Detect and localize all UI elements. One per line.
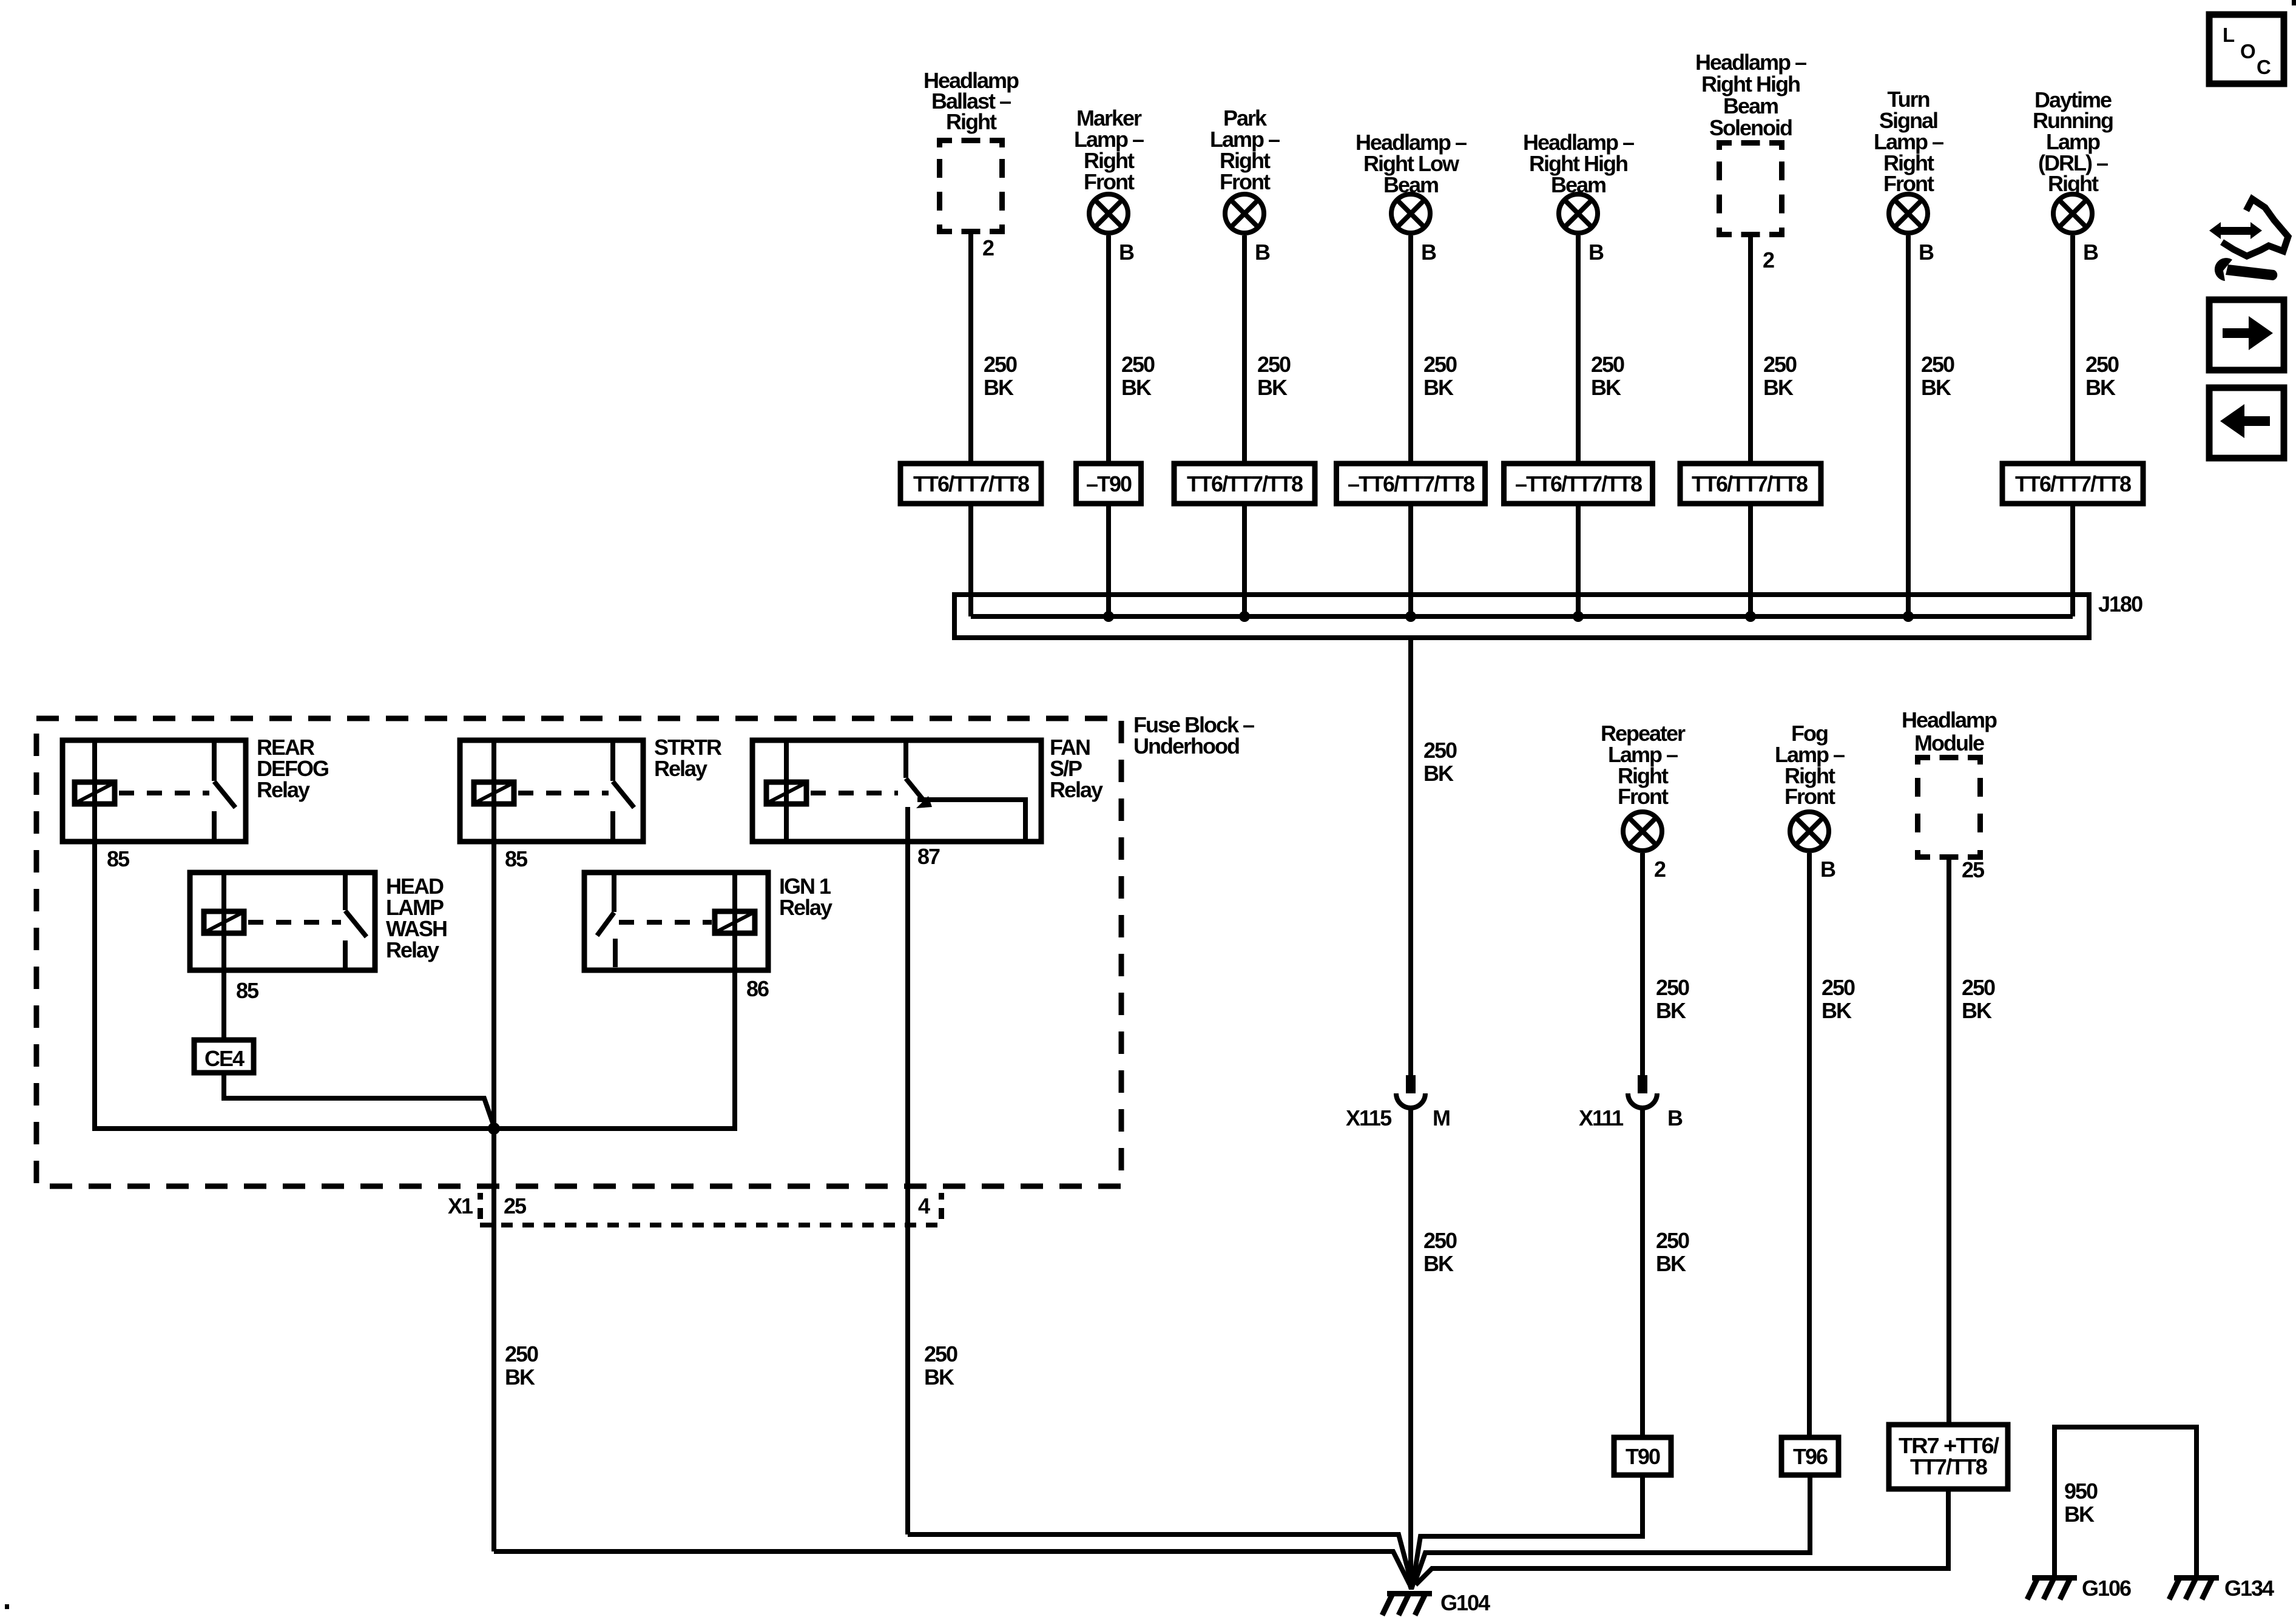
label 250 BK (repeater upper) (1656, 975, 1689, 1023)
label 250 BK (X1-4 wire) (924, 1342, 957, 1389)
connector X1 dashed line (480, 1223, 944, 1227)
wire X111 to T90 (1640, 1108, 1645, 1437)
relay REAR DEFOG: box (62, 740, 246, 842)
svg-text:Relay: Relay (1050, 777, 1103, 802)
splice box -TT6/TT7/TT8 (low) (1337, 464, 1485, 504)
splice box T96 (1781, 1437, 1838, 1475)
junction dot on J180 (low) (1405, 611, 1416, 622)
wire low to bus J180 (1408, 504, 1413, 616)
wire marker to bus J180 (1106, 504, 1111, 616)
relay IGN 1: box (584, 873, 768, 970)
svg-text:T90: T90 (1626, 1444, 1660, 1469)
component Headlamp Module (dashed box) (1902, 707, 1997, 860)
svg-text:250: 250 (1921, 352, 1954, 377)
svg-text:BK: BK (1962, 998, 1992, 1023)
connector X1 left bracket dashes (478, 1193, 483, 1200)
svg-text:250: 250 (1591, 352, 1624, 377)
svg-text:250: 250 (984, 352, 1017, 377)
splice box -T90 (marker) (1076, 464, 1141, 504)
label 250 BK (ballast) (984, 352, 1017, 400)
svg-text:BK: BK (924, 1365, 954, 1389)
svg-text:BK: BK (1763, 375, 1794, 400)
connector X115 (1346, 1075, 1450, 1130)
svg-text:L: L (2223, 24, 2235, 46)
svg-text:B: B (1255, 240, 1270, 265)
wire turn lamp pin B down (1908, 235, 1934, 616)
ground G104 arrow tip (1403, 1573, 1419, 1590)
wire park to bus J180 (1242, 504, 1247, 616)
fuse CE4 box (194, 1040, 254, 1073)
wire solenoid pin 2 down (1751, 237, 1774, 464)
svg-text:T96: T96 (1793, 1444, 1828, 1469)
svg-text:CE4: CE4 (204, 1046, 245, 1071)
component Headlamp - Right High Beam Solenoid (dashed box) (1695, 50, 1806, 237)
wire park lamp pin B down (1244, 235, 1270, 464)
svg-text:Headlamp –: Headlamp – (1695, 50, 1806, 75)
ground G134 symbol (2169, 1575, 2219, 1599)
svg-text:X115: X115 (1346, 1106, 1392, 1130)
svg-text:BK: BK (1423, 375, 1454, 400)
svg-text:B: B (1820, 857, 1835, 882)
svg-text:250: 250 (1121, 352, 1155, 377)
wire high lamp pin B down (1578, 235, 1604, 464)
wire REAR DEFOG pin 85 down (92, 842, 97, 1126)
svg-text:G134: G134 (2224, 1576, 2274, 1601)
label 250 BK (marker) (1121, 352, 1155, 400)
label 250 BK (low) (1423, 352, 1457, 400)
svg-text:G104: G104 (1440, 1590, 1490, 1615)
wire T90 to G104 (1413, 1475, 1643, 1582)
svg-text:TT6/TT7/TT8: TT6/TT7/TT8 (1692, 471, 1808, 496)
svg-text:250: 250 (1763, 352, 1797, 377)
svg-text:BK: BK (505, 1365, 535, 1389)
svg-text:BK: BK (1257, 375, 1288, 400)
svg-text:250: 250 (505, 1342, 538, 1366)
junction dot on J180 (high) (1573, 611, 1584, 622)
label 250 BK (module) (1962, 975, 1995, 1023)
splice box TR7 +TT6/TT7/TT8 (1889, 1425, 2008, 1489)
svg-text:250: 250 (1822, 975, 1855, 1000)
svg-text:250: 250 (1423, 738, 1457, 763)
label 950 BK (2064, 1479, 2098, 1527)
label STRTR Relay (654, 735, 722, 781)
svg-text:O: O (2240, 40, 2256, 62)
relay HEAD LAMP WASH: box (190, 873, 375, 970)
svg-text:–T90: –T90 (1086, 471, 1132, 496)
component Headlamp Ballast - Right (dashed box) (923, 68, 1019, 234)
label Fuse Block - Underhood (1133, 712, 1254, 758)
wire ballast to bus J180 (968, 504, 973, 616)
svg-text:2: 2 (1763, 248, 1774, 272)
svg-text:X111: X111 (1579, 1106, 1624, 1130)
svg-text:Underhood: Underhood (1133, 734, 1239, 758)
junction dot on J180 (marker) (1103, 611, 1114, 622)
svg-text:Right: Right (946, 109, 997, 134)
splice box -TT6/TT7/TT8 (high) (1504, 464, 1653, 504)
svg-text:250: 250 (1423, 352, 1457, 377)
icon back arrow box (2209, 388, 2284, 458)
relay STRTR coil-switch dashed link (518, 791, 609, 795)
wire drl to bus J180 (2070, 504, 2075, 616)
wire bus J180 internal (971, 614, 2073, 619)
svg-text:250: 250 (1656, 975, 1689, 1000)
label IGN 1 Relay (779, 874, 832, 920)
wire STRTR pin 85 down to junction (491, 842, 496, 1129)
svg-text:Beam: Beam (1723, 93, 1778, 118)
svg-text:B: B (1667, 1106, 1683, 1130)
relay STRTR switch contact (613, 740, 634, 842)
label HEAD LAMP WASH Relay (386, 874, 447, 962)
svg-text:–TT6/TT7/TT8: –TT6/TT7/TT8 (1515, 471, 1642, 496)
svg-text:Front: Front (1618, 784, 1669, 809)
svg-text:250: 250 (1962, 975, 1995, 1000)
svg-text:250: 250 (2085, 352, 2119, 377)
lamp Headlamp - Right High Beam (1523, 130, 1634, 233)
svg-text:BK: BK (984, 375, 1014, 400)
connector X1 right bracket dashes (939, 1193, 944, 1200)
svg-text:86: 86 (746, 976, 769, 1001)
wire T96 to G104 (1414, 1475, 1810, 1584)
relay REAR DEFOG switch contact (214, 740, 235, 842)
label 250 BK (turn) (1921, 352, 1954, 400)
relay HEAD LAMP WASH coil-switch dashed link (248, 920, 341, 925)
svg-text:B: B (1919, 240, 1934, 265)
label 250 BK (repeater lower) (1656, 1228, 1689, 1276)
svg-text:Front: Front (1220, 169, 1271, 194)
svg-text:B: B (1421, 240, 1436, 265)
svg-text:BK: BK (2085, 375, 2116, 400)
label 250 BK (park) (1257, 352, 1291, 400)
wire 950 BK ground strap G106-G134 (2055, 1427, 2196, 1578)
svg-text:2: 2 (1654, 857, 1666, 882)
ground G106 symbol (2027, 1575, 2077, 1599)
label 250 BK (low beam upper) (1423, 738, 1457, 786)
label 250 BK (high) (1591, 352, 1624, 400)
relay FAN S/P: box (752, 740, 1041, 842)
svg-text:–TT6/TT7/TT8: –TT6/TT7/TT8 (1348, 471, 1474, 496)
relay HEAD LAMP WASH switch contact (345, 873, 366, 970)
label 250 BK (low beam lower) (1423, 1228, 1457, 1276)
svg-text:Front: Front (1784, 784, 1835, 809)
wire low lamp pin B down (1411, 235, 1436, 464)
svg-text:C: C (2257, 56, 2271, 78)
lamp Turn Signal Lamp - Right Front (1874, 87, 1943, 233)
svg-text:85: 85 (107, 846, 130, 871)
label 250 BK (solenoid) (1763, 352, 1797, 400)
icon LOC box (2209, 15, 2284, 84)
svg-text:J180: J180 (2098, 592, 2142, 616)
label 250 BK (fog) (1822, 975, 1855, 1023)
wire collector down through X1-25 (491, 1129, 496, 1551)
svg-text:BK: BK (1656, 998, 1686, 1023)
wire FAN S/P pin 87 down (905, 807, 910, 1534)
svg-text:B: B (1589, 240, 1604, 265)
relay STRTR coil and pin line (474, 740, 514, 842)
svg-text:250: 250 (1257, 352, 1291, 377)
svg-text:250: 250 (924, 1342, 957, 1366)
svg-text:Right High: Right High (1701, 72, 1800, 96)
svg-text:B: B (2083, 240, 2098, 265)
svg-text:Relay: Relay (779, 895, 832, 920)
svg-text:250: 250 (1656, 1228, 1689, 1253)
splice box TT6/TT7/TT8 (drl) (2002, 464, 2143, 504)
wire CE4 to junction (224, 1073, 494, 1126)
wire marker lamp pin B down (1109, 235, 1134, 464)
lamp Daytime Running Lamp (DRL) - Right (2033, 87, 2113, 233)
junction dot on J180 (park) (1239, 611, 1250, 622)
page mark top right (2292, 0, 2296, 5)
junction dot (fuse block ground collector) (488, 1122, 500, 1135)
svg-text:BK: BK (1423, 1251, 1454, 1276)
page mark bottom left (5, 1604, 9, 1609)
svg-text:Front: Front (1084, 169, 1135, 194)
wire repeater pin 2 to X111 (1643, 853, 1666, 1075)
component Fuse Block - Underhood (dashed outline) (36, 718, 1121, 1186)
relay FAN S/P coil-switch dashed link (811, 791, 898, 795)
svg-text:4: 4 (918, 1193, 930, 1218)
svg-text:BK: BK (2064, 1502, 2095, 1527)
junction dot on J180 (sol) (1745, 611, 1756, 622)
lamp Headlamp - Right Low Beam (1356, 130, 1467, 233)
svg-text:BK: BK (1822, 998, 1852, 1023)
wire X1-4 (FAN S/P 87) to G104 (908, 1534, 1411, 1582)
svg-text:TT6/TT7/TT8: TT6/TT7/TT8 (2015, 471, 2131, 496)
svg-text:G106: G106 (2082, 1576, 2131, 1601)
svg-text:Relay: Relay (654, 756, 707, 781)
wire TR7 to G104 (1416, 1489, 1948, 1585)
lamp Repeater Lamp - Right Front (1601, 721, 1686, 851)
svg-text:BK: BK (1121, 375, 1152, 400)
wire low-beam ground lead (bus to X115) (1408, 638, 1413, 1075)
svg-text:2: 2 (982, 235, 994, 260)
splice box TT6/TT7/TT8 (park) (1174, 464, 1315, 504)
relay FAN S/P switch contact with output (906, 740, 1025, 839)
svg-text:BK: BK (1423, 761, 1454, 786)
svg-text:87: 87 (917, 844, 940, 869)
splice box TT6/TT7/TT8 (ballast) (900, 464, 1041, 504)
svg-text:M: M (1433, 1106, 1450, 1130)
ground G104 symbol (1382, 1591, 1432, 1615)
relay IGN 1 coil and pin line (715, 873, 755, 970)
wire high to bus J180 (1576, 504, 1581, 616)
svg-text:85: 85 (236, 978, 259, 1003)
wire solenoid to bus J180 (1748, 504, 1753, 616)
svg-text:TT7/TT8: TT7/TT8 (1910, 1454, 1987, 1479)
relay STRTR: box (460, 740, 643, 842)
wire X1-25 to G104 (494, 1551, 1410, 1584)
splice bus J180 outline (954, 595, 2089, 638)
svg-text:Relay: Relay (386, 937, 439, 962)
splice box TT6/TT7/TT8 (solenoid) (1680, 464, 1821, 504)
wire module pin 25 down (1949, 857, 1985, 1425)
relay IGN 1 switch contact (left) (597, 873, 615, 967)
label REAR DEFOG Relay (257, 735, 328, 802)
svg-text:BK: BK (1921, 375, 1951, 400)
splice box T90 (1614, 1437, 1671, 1475)
wire ballast pin 2 to splice box (971, 234, 994, 464)
svg-text:Headlamp: Headlamp (1902, 707, 1997, 732)
lamp Park Lamp - Right Front (1210, 106, 1280, 233)
label 250 BK (X1-25 wire) (505, 1342, 538, 1389)
lamp Marker Lamp - Right Front (1074, 106, 1144, 233)
svg-text:Solenoid: Solenoid (1709, 115, 1792, 140)
svg-text:250: 250 (1423, 1228, 1457, 1253)
relay FAN S/P coil and pin line (766, 740, 806, 842)
relay REAR DEFOG coil and pin line (75, 740, 115, 842)
relay IGN 1 coil-switch dashed link (619, 920, 712, 925)
svg-text:B: B (1119, 240, 1134, 265)
connector X111 (1579, 1075, 1683, 1130)
svg-text:25: 25 (504, 1193, 527, 1218)
svg-text:950: 950 (2064, 1479, 2098, 1504)
svg-text:BK: BK (1591, 375, 1621, 400)
wire X115 to G104 (1408, 1108, 1413, 1586)
svg-text:BK: BK (1656, 1251, 1686, 1276)
svg-text:TT6/TT7/TT8: TT6/TT7/TT8 (1187, 471, 1303, 496)
relay HEAD LAMP WASH coil and pin line (204, 873, 244, 970)
wire drl lamp pin B down (2073, 235, 2098, 464)
icon forward arrow box (2209, 300, 2284, 370)
label FAN S/P Relay (1050, 735, 1103, 802)
wire HEAD LAMP WASH pin 85 to CE4 (221, 970, 226, 1040)
svg-text:Relay: Relay (257, 777, 310, 802)
lamp Fog Lamp - Right Front (1775, 721, 1845, 851)
junction dot on J180 (turn) (1903, 611, 1914, 622)
svg-text:Module: Module (1914, 731, 1984, 755)
label 250 BK (drl) (2085, 352, 2119, 400)
svg-text:TT6/TT7/TT8: TT6/TT7/TT8 (913, 471, 1029, 496)
icon service manual (arrow + hood outline + wrench) (2209, 199, 2288, 281)
wire fog pin B down (1809, 853, 1835, 1437)
wire IGN 1 pin 86 down to collector (732, 970, 737, 1126)
svg-text:85: 85 (505, 846, 528, 871)
svg-text:25: 25 (1962, 857, 1985, 882)
svg-text:X1: X1 (448, 1193, 473, 1218)
relay REAR DEFOG coil-switch dashed link (119, 791, 209, 795)
